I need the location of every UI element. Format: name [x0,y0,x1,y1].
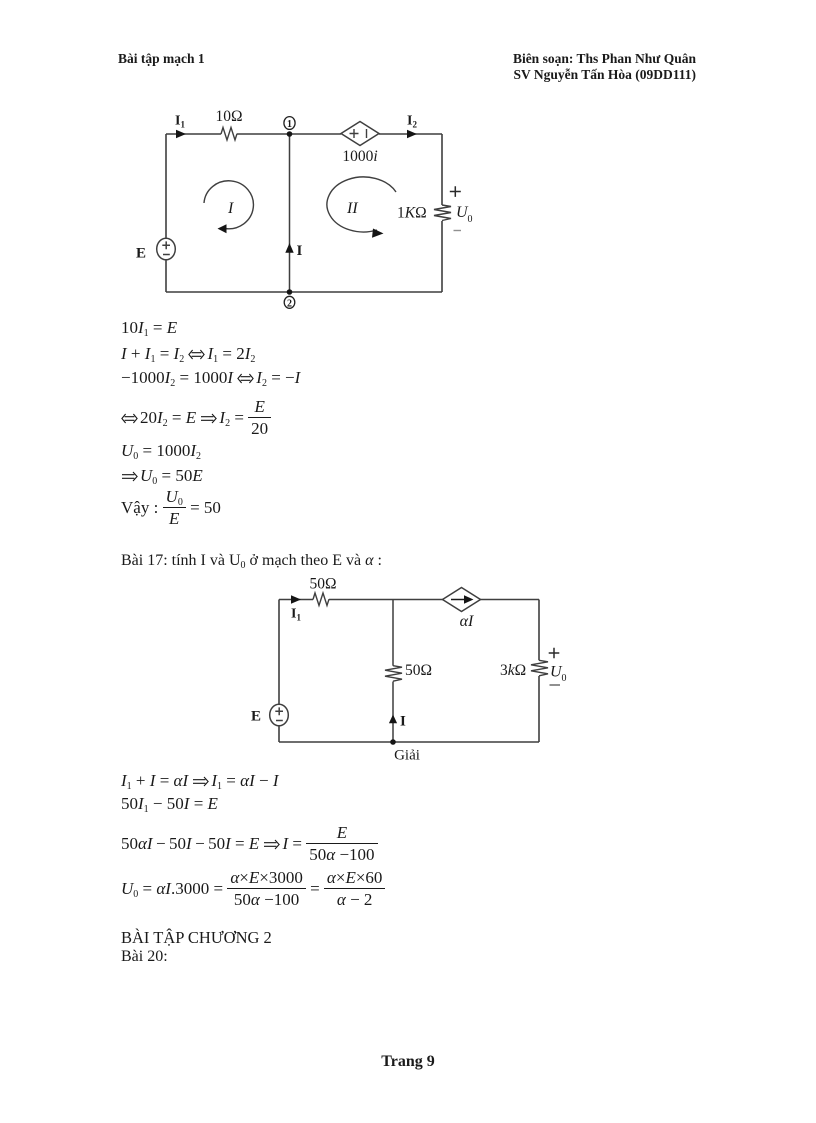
svg-text:I1: I1 [291,607,301,623]
svg-text:Giải: Giải [394,748,420,764]
svg-text:E: E [136,246,146,262]
svg-text:3kΩ: 3kΩ [500,662,526,679]
svg-text:II: II [346,200,358,217]
svg-text:I: I [400,713,406,729]
svg-text:2: 2 [287,298,292,309]
svg-text:I2: I2 [407,114,417,130]
svg-text:1000i: 1000i [342,148,377,165]
svg-text:E: E [251,709,261,725]
svg-text:I: I [227,200,234,217]
svg-text:50Ω: 50Ω [405,662,432,679]
svg-text:αI: αI [460,613,474,630]
svg-text:1: 1 [287,119,292,130]
svg-text:0: 0 [562,673,567,684]
svg-text:0: 0 [468,214,473,225]
svg-text:I1: I1 [175,114,185,130]
svg-text:I: I [297,243,303,259]
svg-text:50Ω: 50Ω [309,576,336,593]
svg-text:1KΩ: 1KΩ [397,205,427,222]
svg-text:10Ω: 10Ω [215,108,242,125]
